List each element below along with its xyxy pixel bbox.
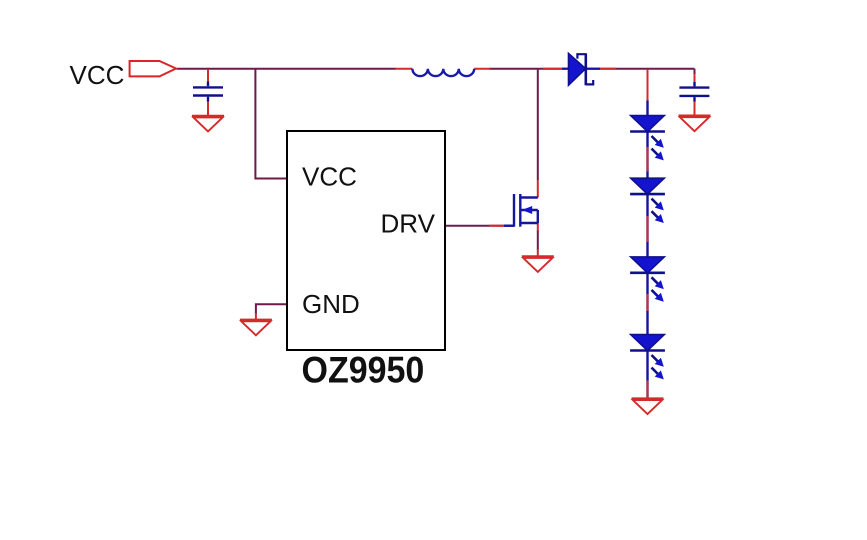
svg-text:DRV: DRV bbox=[381, 209, 436, 239]
svg-text:VCC: VCC bbox=[302, 162, 357, 192]
svg-text:GND: GND bbox=[302, 289, 360, 319]
svg-text:VCC: VCC bbox=[70, 60, 125, 90]
svg-text:OZ9950: OZ9950 bbox=[302, 349, 425, 391]
